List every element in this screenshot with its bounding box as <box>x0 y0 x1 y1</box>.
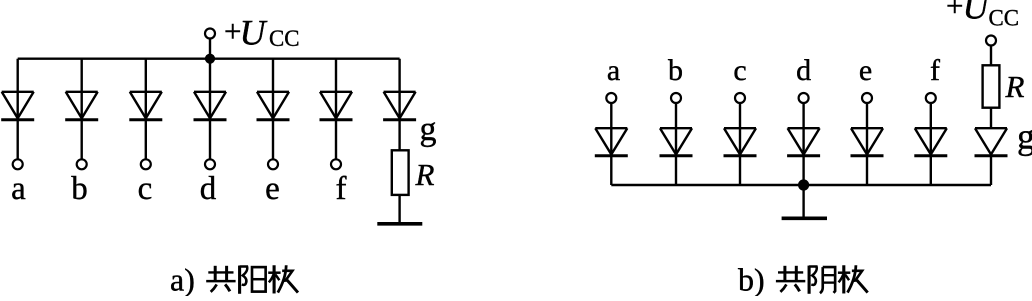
svg-text:R: R <box>1005 69 1025 104</box>
wire: resistor to ground <box>398 195 400 222</box>
svg-text:CC: CC <box>989 6 1020 31</box>
terminal a of circuit b <box>606 93 616 103</box>
svg-text:e: e <box>265 171 280 207</box>
diode segment c (LED) <box>129 92 162 120</box>
terminal e of circuit b <box>862 93 872 103</box>
wire: branch c of circuit b <box>739 103 741 185</box>
caption hanzi gong (common) of b <box>776 266 805 292</box>
wire: branch f <box>335 59 337 160</box>
wire: +UCC terminal to bus <box>209 39 211 59</box>
resistor R of circuit a <box>392 150 409 195</box>
diode segment g of circuit b (LED) <box>975 128 1008 156</box>
wire: branch d <box>209 59 211 160</box>
wire: branch e <box>272 59 274 160</box>
diode segment b of circuit b (LED) <box>660 128 693 156</box>
diode segment f (LED) <box>320 92 353 120</box>
svg-text:b: b <box>71 171 88 207</box>
svg-text:g: g <box>420 111 437 148</box>
terminal d of circuit b <box>799 93 809 103</box>
terminal +UCC of circuit b <box>986 36 996 46</box>
svg-text:c: c <box>138 171 153 207</box>
terminal f <box>331 159 341 169</box>
caption hanzi yang (anode) <box>240 266 266 294</box>
svg-text:U: U <box>963 0 991 27</box>
terminal f of circuit b <box>926 93 936 103</box>
terminal c <box>141 159 151 169</box>
caption hanzi yin (cathode) <box>809 266 835 294</box>
svg-text:R: R <box>415 157 435 192</box>
diode segment e of circuit b (LED) <box>851 128 884 156</box>
resistor R of circuit b <box>983 65 1000 107</box>
terminal a <box>13 159 23 169</box>
svg-text:f: f <box>336 171 347 207</box>
wire: bottom cathode bus of circuit b <box>611 184 991 186</box>
wire: diode g to bus <box>990 156 992 185</box>
svg-text:d: d <box>200 171 217 207</box>
terminal +UCC of circuit a <box>205 29 215 39</box>
junction dot on bottom bus <box>798 179 809 190</box>
svg-text:U: U <box>240 13 268 53</box>
label +UCC of circuit a <box>224 13 300 53</box>
diode segment a (LED) <box>1 92 34 120</box>
diode segment f of circuit b (LED) <box>914 128 947 156</box>
wire: branch f of circuit b <box>930 103 932 185</box>
diode segment e (LED) <box>257 92 290 120</box>
diode segment b (LED) <box>65 92 98 120</box>
caption hanzi ji (pole) of a <box>268 265 298 293</box>
terminal b of circuit b <box>671 93 681 103</box>
diode segment d (LED) <box>194 92 227 120</box>
label +UCC of circuit b <box>946 0 1019 31</box>
wire: branch b of circuit b <box>675 103 677 185</box>
svg-text:f: f <box>930 54 940 87</box>
svg-text:e: e <box>859 54 872 87</box>
svg-text:b: b <box>668 54 683 87</box>
svg-text:a: a <box>607 54 620 87</box>
wire: branch g upper <box>398 59 400 151</box>
wire: top anode bus of circuit a <box>18 58 400 60</box>
caption hanzi gong (common) of a <box>206 266 235 292</box>
wire: +UCC to resistor <box>990 45 992 65</box>
svg-text:a): a) <box>170 262 195 297</box>
svg-text:b): b) <box>738 262 765 297</box>
svg-text:a: a <box>11 171 26 207</box>
ground of circuit a <box>377 222 422 226</box>
terminal d <box>205 159 215 169</box>
caption hanzi ji (pole) of b <box>838 265 868 293</box>
svg-text:g: g <box>1017 117 1032 157</box>
svg-text:+: + <box>946 0 963 23</box>
wire: bus to ground <box>802 185 804 217</box>
junction dot on bus (node d / UCC tap) <box>205 54 215 64</box>
wire: branch a <box>17 59 19 160</box>
wire: branch d of circuit b <box>802 103 804 185</box>
ground of circuit b <box>782 217 827 221</box>
wire: branch e of circuit b <box>866 103 868 185</box>
wire: resistor to diode g <box>990 108 992 129</box>
wire: branch c <box>145 59 147 160</box>
diode segment c of circuit b (LED) <box>724 128 757 156</box>
diode segment d of circuit b (LED) <box>787 128 820 156</box>
svg-text:d: d <box>796 54 811 87</box>
diode segment g (LED) <box>383 92 416 120</box>
wire: branch a of circuit b <box>610 103 612 185</box>
svg-text:CC: CC <box>269 26 300 51</box>
diode segment a of circuit b (LED) <box>595 128 628 156</box>
svg-text:c: c <box>733 54 746 87</box>
terminal e <box>268 159 278 169</box>
terminal b <box>77 159 87 169</box>
terminal c of circuit b <box>735 93 745 103</box>
wire: branch b <box>80 59 82 160</box>
